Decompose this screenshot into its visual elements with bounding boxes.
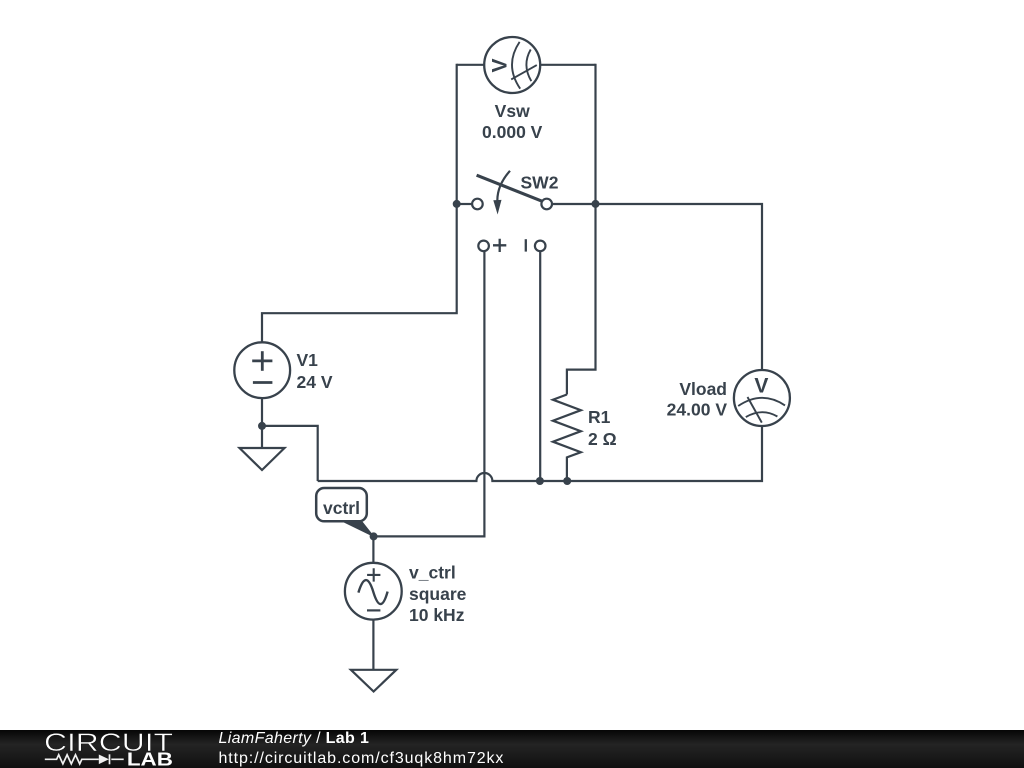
- svg-text:24.00 V: 24.00 V: [667, 400, 728, 420]
- svg-text:square: square: [409, 584, 467, 604]
- svg-text:http://circuitlab.com/cf3uqk8h: http://circuitlab.com/cf3uqk8hm72kx: [219, 750, 505, 767]
- svg-text:Vload: Vload: [679, 379, 727, 399]
- svg-text:v_ctrl: v_ctrl: [409, 563, 456, 583]
- svg-text:R1: R1: [588, 407, 611, 427]
- svg-text:10 kHz: 10 kHz: [409, 605, 465, 625]
- svg-text:LiamFaherty / Lab 1: LiamFaherty / Lab 1: [219, 730, 370, 747]
- svg-text:0.000 V: 0.000 V: [482, 122, 543, 142]
- svg-text:Vsw: Vsw: [495, 101, 530, 121]
- svg-text:2 Ω: 2 Ω: [588, 429, 617, 449]
- svg-text:SW2: SW2: [521, 173, 559, 193]
- svg-text:LAB: LAB: [127, 750, 173, 768]
- svg-text:24 V: 24 V: [297, 372, 333, 392]
- svg-text:vctrl: vctrl: [323, 498, 360, 518]
- svg-text:V1: V1: [297, 350, 319, 370]
